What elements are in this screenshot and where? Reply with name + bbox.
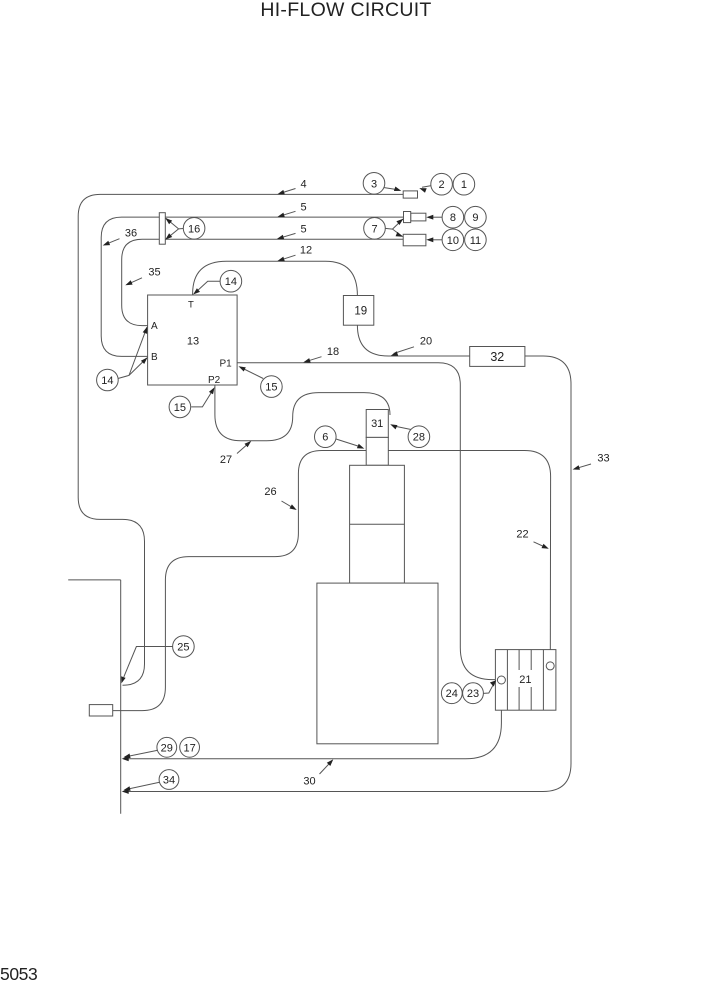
svg-text:9: 9	[472, 212, 478, 224]
valve block 13	[148, 295, 238, 385]
callout 6	[336, 439, 361, 447]
svg-text:18: 18	[327, 346, 339, 358]
port stub rectangle	[89, 705, 112, 716]
svg-text:HI-FLOW CIRCUIT: HI-FLOW CIRCUIT	[260, 0, 431, 21]
svg-text:1: 1	[461, 179, 467, 191]
label 12	[280, 255, 296, 260]
box 21 left port	[497, 676, 505, 684]
callout 9	[465, 206, 487, 228]
svg-text:21: 21	[519, 674, 531, 686]
label 4	[280, 189, 296, 194]
svg-text:3: 3	[371, 178, 377, 190]
svg-text:P1: P1	[220, 359, 233, 370]
callout 14 top (T)	[196, 281, 220, 292]
svg-text:20: 20	[420, 336, 432, 348]
wire hose 5 lower (to port A)	[122, 239, 404, 325]
label 26	[282, 501, 295, 509]
svg-text:15: 15	[265, 382, 277, 394]
wire hose 20 (box 19 to box 32)	[357, 325, 469, 356]
svg-text:17: 17	[183, 742, 195, 754]
svg-text:14: 14	[101, 375, 113, 387]
svg-text:35: 35	[148, 267, 160, 279]
svg-text:13: 13	[187, 336, 199, 348]
box 32	[470, 347, 525, 367]
callout 2	[422, 186, 432, 188]
breaker box 31	[366, 410, 388, 438]
svg-text:22: 22	[516, 528, 528, 540]
svg-text:7: 7	[371, 223, 377, 235]
callout 11	[465, 229, 487, 251]
label 22	[534, 542, 548, 548]
cooler box 21	[495, 650, 556, 711]
svg-text:23: 23	[467, 688, 479, 700]
tank line vertical	[120, 580, 122, 814]
svg-text:36: 36	[125, 227, 137, 239]
svg-text:32: 32	[490, 350, 504, 364]
wire hose 18 (valve P1 to box 21 left port)	[237, 363, 495, 680]
callout 8	[428, 216, 442, 218]
wire hose 12 (valve T port to box 19)	[193, 261, 358, 295]
svg-text:30: 30	[303, 775, 315, 787]
wire hose 22 (rod to box 21 right port)	[388, 451, 550, 667]
cylinder body	[350, 465, 405, 583]
callout 7	[393, 219, 404, 237]
svg-text:28: 28	[413, 432, 425, 444]
svg-text:27: 27	[220, 454, 232, 466]
label 35	[127, 278, 142, 285]
svg-text:16: 16	[188, 223, 200, 235]
callout 23	[483, 685, 493, 694]
label 5 upper	[280, 211, 296, 216]
svg-text:5: 5	[300, 201, 306, 213]
label 20	[394, 347, 414, 354]
callout 1	[453, 173, 475, 195]
callout 17	[180, 737, 200, 757]
base block	[317, 583, 438, 744]
callout 15 left (P2)	[191, 390, 213, 407]
callout 24	[441, 683, 462, 704]
svg-text:4: 4	[300, 179, 306, 191]
svg-text:P2: P2	[208, 375, 221, 386]
callout 28	[394, 426, 411, 430]
callout 10	[428, 239, 442, 241]
wire hose 27 (valve P2 to box 31)	[215, 385, 390, 441]
wire hose 4 (pump to fitting, big left loop)	[78, 194, 403, 685]
callout 15 right (P1)	[241, 368, 263, 379]
svg-text:34: 34	[163, 775, 175, 787]
svg-text:T: T	[188, 300, 194, 311]
fitting for hose 4	[403, 191, 417, 198]
fitting for hose 5 upper	[404, 212, 426, 223]
label 33	[575, 464, 591, 469]
svg-text:A: A	[151, 321, 158, 332]
callout 29	[127, 750, 158, 756]
callout 25	[124, 647, 173, 677]
svg-text:5: 5	[300, 223, 306, 235]
fitting 16	[159, 213, 165, 245]
fitting for hose 5 lower	[403, 234, 426, 246]
svg-text:6: 6	[322, 432, 328, 444]
tank line horizontal	[68, 579, 121, 581]
label 30	[320, 761, 332, 774]
label 27	[237, 442, 250, 453]
callout 14 left (A,B)	[118, 327, 146, 378]
callout 34	[127, 782, 160, 789]
svg-text:B: B	[151, 352, 158, 363]
svg-text:29: 29	[161, 742, 173, 754]
svg-text:14: 14	[225, 276, 237, 288]
svg-text:12: 12	[300, 245, 312, 257]
svg-text:15: 15	[174, 402, 186, 414]
svg-text:5053: 5053	[0, 964, 37, 984]
label 5 lower	[279, 233, 296, 238]
wire hose 30 (box 21 bottom to left arrow)	[128, 684, 501, 759]
callout 16	[166, 218, 184, 229]
label 18	[306, 357, 322, 362]
wire hose 33 (box 32 down right side to bottom arrow)	[128, 356, 571, 792]
rod segment	[366, 437, 388, 465]
svg-text:10: 10	[447, 235, 459, 247]
svg-text:26: 26	[264, 486, 276, 498]
box 21 right port	[546, 662, 554, 670]
box 19	[343, 296, 373, 326]
wire hose 26 (port stub up to cylinder rod, left part)	[113, 451, 367, 711]
svg-text:25: 25	[177, 642, 189, 654]
label 36	[105, 239, 120, 245]
svg-text:2: 2	[439, 179, 445, 191]
svg-text:33: 33	[597, 452, 609, 464]
svg-text:24: 24	[446, 688, 458, 700]
svg-text:8: 8	[450, 212, 456, 224]
svg-text:11: 11	[470, 235, 481, 247]
wire hose 5 upper (to port B)	[101, 217, 403, 356]
callout 3	[384, 188, 399, 190]
svg-text:31: 31	[371, 418, 383, 430]
svg-text:19: 19	[354, 306, 367, 318]
